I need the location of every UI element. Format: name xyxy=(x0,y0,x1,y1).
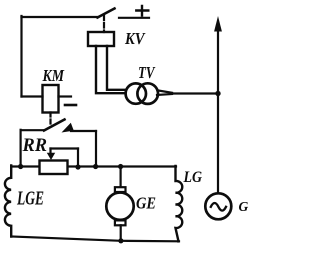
wire KM contact right lead xyxy=(71,130,96,132)
rheostat wiper arrowhead xyxy=(47,153,55,160)
KM contact blade xyxy=(44,120,65,131)
svg-text:RR: RR xyxy=(22,135,47,156)
wire riser down to generator G xyxy=(217,94,219,194)
svg-text:LGE: LGE xyxy=(16,189,44,210)
wire riser up to arrow xyxy=(217,28,219,94)
svg-text:KV: KV xyxy=(124,29,146,48)
wire left vertical feeder xyxy=(20,16,22,97)
svg-text:KM: KM xyxy=(42,66,65,85)
rheostat wiper arrow stem xyxy=(49,149,51,154)
generator field winding LG xyxy=(176,166,183,241)
junction node wiper/bus xyxy=(75,164,80,169)
wire KM contact left vertical xyxy=(20,130,22,167)
wire GE top lead xyxy=(119,167,121,188)
wire TV lower right lead xyxy=(157,94,172,95)
wire rheostat wiper right vertical xyxy=(77,149,79,167)
plus terminal xyxy=(136,6,148,16)
wire KM contact left lead xyxy=(21,129,44,131)
bottom bus xyxy=(11,237,179,242)
switch (KV contact) blade xyxy=(98,9,115,18)
wire TV to riser xyxy=(170,92,218,94)
field bus top xyxy=(11,165,176,167)
minus terminal xyxy=(65,104,76,107)
contactor coil KM xyxy=(43,85,59,113)
wire KM contact right vertical xyxy=(95,131,97,167)
junction node GE/bus xyxy=(118,164,123,169)
junction node contact-right/bus xyxy=(93,164,98,169)
wire GE bottom lead xyxy=(120,225,122,241)
sine wave inside G xyxy=(211,203,226,211)
svg-text:GE: GE xyxy=(136,194,156,213)
wire feeder to KM coil xyxy=(22,95,43,97)
svg-text:LG: LG xyxy=(183,169,203,186)
wire TV upper right lead xyxy=(158,90,173,93)
rheostat RR box xyxy=(40,161,68,175)
junction node GE/bottom bus xyxy=(118,238,123,243)
svg-text:G: G xyxy=(239,199,249,214)
junction node contact-left/bus xyxy=(18,164,23,169)
generator G circle xyxy=(205,193,231,219)
wire top horizontal from left corner to switch xyxy=(22,16,99,18)
mechanical link dashed KM coil to KM contact xyxy=(49,113,51,125)
exciter field winding LGE xyxy=(5,166,11,237)
wire KV right lead to TV xyxy=(107,46,128,90)
wire rheostat wiper horizontal xyxy=(51,147,79,149)
relay coil KV xyxy=(88,32,114,46)
exciter GE top brush xyxy=(115,187,126,192)
svg-text:TV: TV xyxy=(138,63,156,82)
transformer TV left circle xyxy=(126,83,146,103)
arrowhead to network xyxy=(214,16,222,32)
junction node riser/TV xyxy=(215,91,220,96)
exciter GE armature circle xyxy=(106,193,133,220)
wire switch to plus terminal xyxy=(119,17,149,19)
wire KM to minus xyxy=(59,95,72,97)
mechanical link dashed switch to KV coil xyxy=(103,16,105,33)
wire KV left lead to TV xyxy=(96,46,127,93)
exciter GE bottom brush xyxy=(115,220,126,225)
transformer TV right circle xyxy=(137,83,158,104)
KM contact fixed arrow xyxy=(62,123,74,133)
